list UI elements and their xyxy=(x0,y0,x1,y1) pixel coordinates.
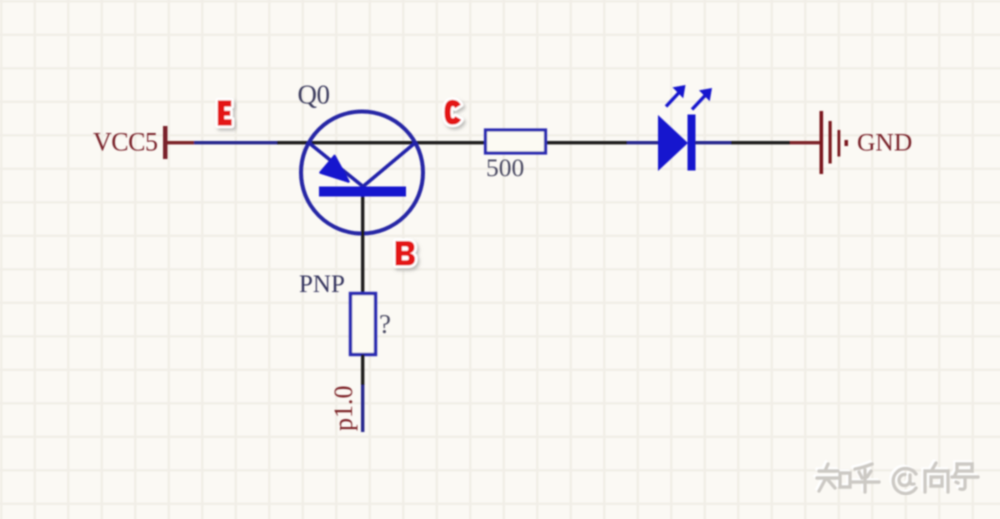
svg-text:GND: GND xyxy=(857,128,912,157)
ground bar 3 xyxy=(838,130,841,157)
wire below resistor (black) xyxy=(361,355,364,386)
svg-text:?: ? xyxy=(379,309,391,339)
svg-text:VCC5: VCC5 xyxy=(93,128,157,157)
ground bar 2 xyxy=(829,121,832,164)
wire VCC5 stub (dark red) xyxy=(167,141,194,144)
label C xyxy=(444,100,461,125)
svg-text:PNP: PNP xyxy=(299,271,345,298)
ground dot xyxy=(845,140,849,146)
svg-text:p1.0: p1.0 xyxy=(329,386,358,432)
ground bar 1 xyxy=(820,111,824,174)
power port bar VCC5 xyxy=(163,126,168,159)
watermark zhihu xyxy=(815,461,978,494)
label B xyxy=(396,241,416,266)
transistor Q0 collector diagonal xyxy=(363,143,416,187)
resistor 500 body xyxy=(486,130,546,153)
transistor Q0 base bar xyxy=(319,187,406,197)
LED D1 cathode bar xyxy=(688,115,696,171)
wire port pin p1.0 (blue) xyxy=(361,385,364,432)
LED D1 triangle xyxy=(658,115,688,171)
svg-text:500: 500 xyxy=(486,153,524,182)
wire LED anode pin (blue) xyxy=(627,141,659,144)
wire resistor to LED (black) xyxy=(547,141,627,144)
wire emitter to transistor (black) xyxy=(277,141,484,144)
wire LED cathode pin (blue) xyxy=(695,141,731,144)
resistor ? body xyxy=(351,294,376,355)
wire LED to GND (black) xyxy=(731,141,790,144)
wire emitter pin (blue) xyxy=(194,141,278,144)
transistor Q0 emitter diagonal xyxy=(309,143,364,187)
LED D1 arrow 2 xyxy=(692,88,712,110)
wire GND stub (dark red) xyxy=(790,141,820,144)
label E xyxy=(218,100,232,125)
svg-text:Q0: Q0 xyxy=(298,80,330,110)
wire base (black) xyxy=(361,197,364,294)
transistor Q0 emitter arrow xyxy=(321,156,349,182)
LED D1 arrow 1 xyxy=(666,85,686,107)
transistor Q0 circle xyxy=(301,112,423,234)
